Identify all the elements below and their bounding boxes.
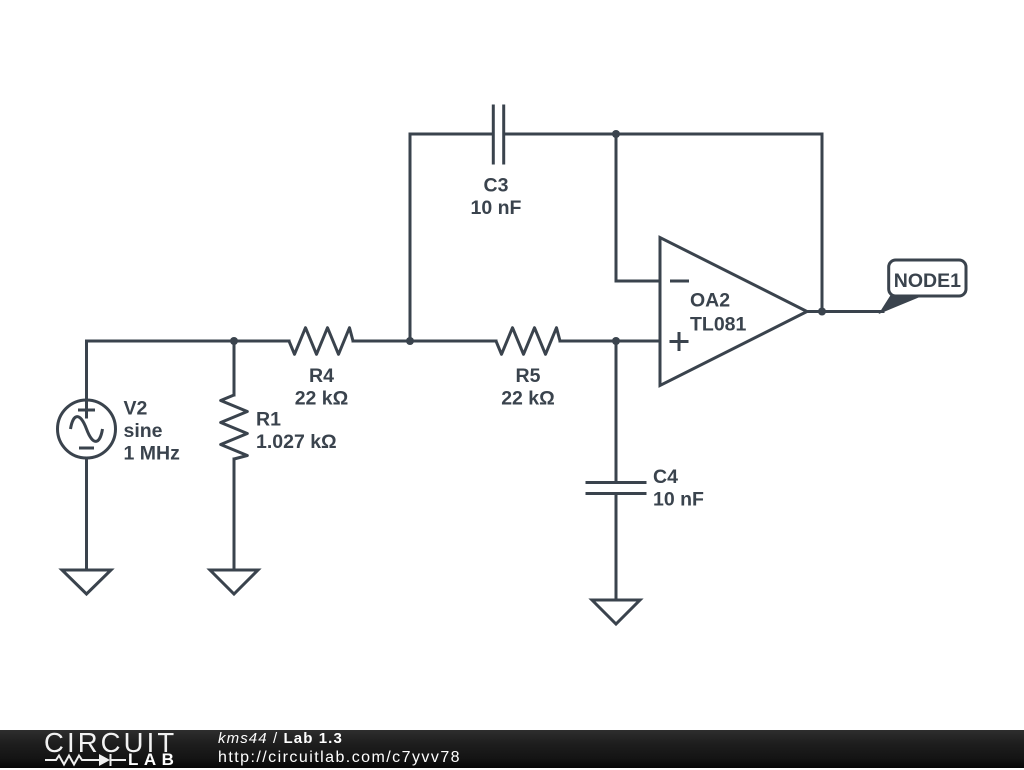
node junction dot output xyxy=(818,308,826,316)
CircuitLab logo resistor-diode graphic xyxy=(0,730,200,768)
svg-text:1 MHz: 1 MHz xyxy=(124,443,181,465)
svg-text:10 nF: 10 nF xyxy=(653,489,704,511)
resistor R1 labels xyxy=(256,409,337,454)
capacitor C3 xyxy=(493,105,503,165)
svg-text:sine: sine xyxy=(124,420,163,442)
node NODE1 flag xyxy=(881,260,966,312)
capacitor C4 labels xyxy=(653,466,704,511)
capacitor C3 labels xyxy=(471,175,522,220)
ground (C4) xyxy=(592,600,640,624)
ground (V2) xyxy=(62,570,111,594)
footer bar xyxy=(0,730,1024,768)
resistor R5 xyxy=(496,328,560,355)
footer url text xyxy=(218,749,461,767)
wire C3 right to feedback corner xyxy=(505,134,822,312)
voltage source V2 xyxy=(58,400,116,458)
wire R5 to op-amp noninverting input xyxy=(560,340,660,343)
op-amp OA2 labels xyxy=(690,290,747,336)
capacitor C4 xyxy=(586,483,647,494)
node junction dot R5/C4/plus input xyxy=(612,337,620,345)
svg-text:10 nF: 10 nF xyxy=(471,197,522,219)
svg-text:R4: R4 xyxy=(309,365,334,387)
svg-text:OA2: OA2 xyxy=(690,290,730,312)
wire op-amp output xyxy=(807,310,883,313)
wire node A up to C3 left xyxy=(410,134,492,341)
wire R4 to R5 xyxy=(353,340,496,343)
wire V2 top lead xyxy=(85,341,88,400)
resistor R5 labels xyxy=(501,365,555,410)
node junction dot R4/R5/C3 xyxy=(406,337,414,345)
footer title text xyxy=(218,730,343,747)
wire R1 bottom lead to ground xyxy=(233,459,236,570)
wire V2 bottom lead to ground xyxy=(85,458,88,570)
wire main input V2 to R4 xyxy=(87,340,290,343)
ground (R1) xyxy=(210,570,258,594)
svg-text:R5: R5 xyxy=(516,365,541,387)
svg-text:C3: C3 xyxy=(484,175,509,197)
svg-text:TL081: TL081 xyxy=(690,314,747,336)
wire C4 bottom lead to ground xyxy=(615,495,618,600)
wire R1 top lead xyxy=(233,341,236,395)
op-amp OA2 xyxy=(660,238,807,386)
voltage source V2 labels xyxy=(124,398,181,465)
svg-text:1.027 kΩ: 1.027 kΩ xyxy=(256,431,337,453)
CircuitLab logo wordmark xyxy=(44,727,177,759)
wire feedback branch to inverting input xyxy=(616,134,660,281)
node junction dot C3/inverting feedback xyxy=(612,130,620,138)
resistor R4 labels xyxy=(295,365,349,410)
resistor R1 xyxy=(221,395,248,459)
svg-text:22 kΩ: 22 kΩ xyxy=(295,388,349,410)
svg-text:R1: R1 xyxy=(256,409,281,431)
resistor R4 xyxy=(289,328,353,355)
svg-text:22 kΩ: 22 kΩ xyxy=(501,388,555,410)
svg-text:C4: C4 xyxy=(653,466,678,488)
svg-text:NODE1: NODE1 xyxy=(894,270,961,292)
svg-text:V2: V2 xyxy=(124,398,148,420)
wire C4 top lead xyxy=(615,341,618,481)
node junction dot R1 xyxy=(230,337,238,345)
